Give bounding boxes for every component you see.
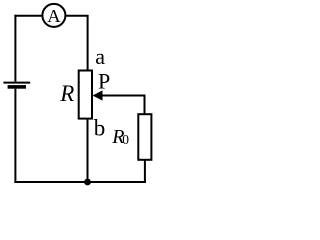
wire: below R0 to bottom rail [144, 160, 146, 183]
wire: below rheostat to junction [87, 119, 89, 182]
junction dot [84, 179, 91, 186]
bottom rail wire [14, 181, 146, 183]
wire: left vertical lower (battery to bottom rail) [14, 89, 16, 183]
wiper P arrow [93, 90, 145, 100]
label R0 [111, 126, 129, 148]
battery cell [3, 83, 30, 89]
wire: left vertical upper (to battery) [14, 15, 16, 82]
rheostat R body [79, 71, 92, 119]
svg-text:0: 0 [122, 132, 129, 147]
wire: top horizontal left segment [14, 15, 42, 17]
resistor R0 body [138, 114, 151, 160]
wire: wiper corner vertical down to R0 [144, 95, 146, 115]
wire: top horizontal right segment [65, 15, 88, 17]
svg-text:b: b [94, 116, 106, 141]
svg-text:A: A [47, 6, 61, 26]
wire: right vertical down to rheostat top [87, 16, 89, 71]
svg-text:R: R [59, 81, 74, 106]
svg-text:a: a [95, 44, 105, 69]
svg-text:P: P [98, 68, 110, 93]
ammeter A [42, 4, 65, 27]
